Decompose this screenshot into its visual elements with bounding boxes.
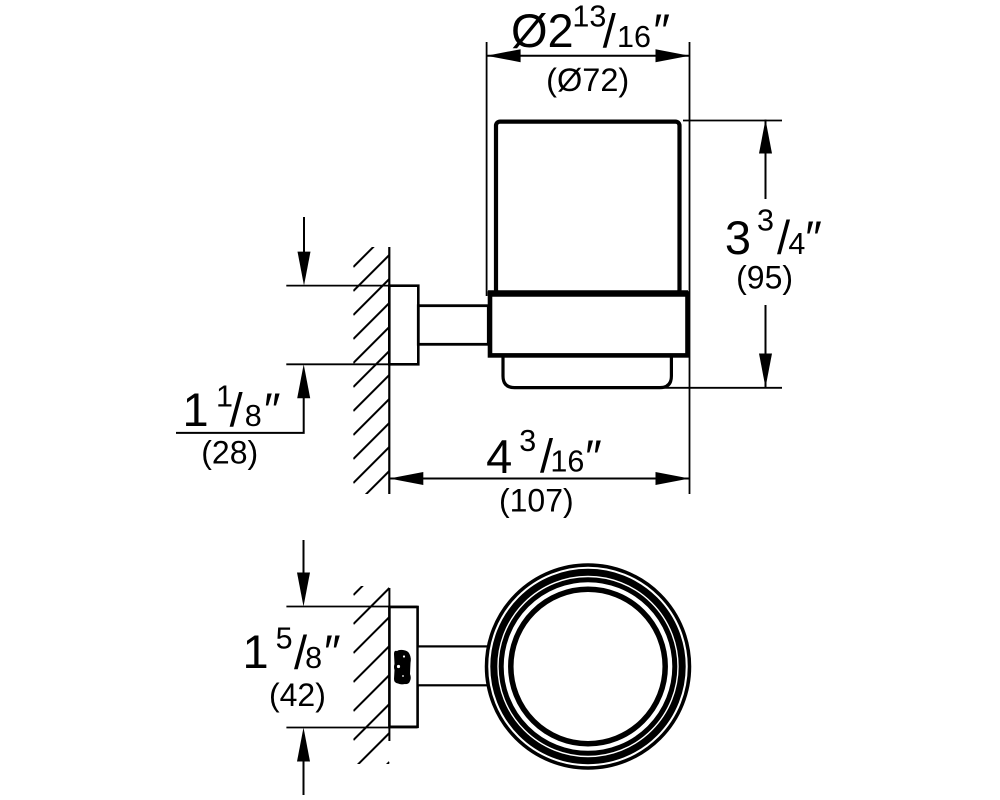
dim 95 arrow top (759, 120, 772, 154)
holder top edge thick (488, 290, 688, 297)
svg-text:4: 4 (486, 430, 512, 483)
dim label 3 3/4" (725, 204, 822, 265)
dim 28 leader and bottom arrow (176, 397, 304, 433)
svg-text:3: 3 (725, 211, 751, 264)
wall plate (side view) (389, 286, 418, 365)
dim label 1 5/8" (243, 622, 341, 680)
svg-text:(Ø72): (Ø72) (546, 62, 629, 98)
holder ring outer circle (bottom view) (487, 565, 690, 768)
dim 28 top arrow (303, 217, 305, 254)
dim 42 extension line top (286, 606, 417, 608)
dim 107 arrow right (656, 472, 690, 485)
glass bottom below holder (side view) (503, 354, 671, 388)
svg-text:1: 1 (243, 625, 269, 678)
dim 95 arrow bottom (759, 354, 772, 388)
dim label Ø2 13/16" (511, 0, 670, 57)
svg-text:Ø2: Ø2 (511, 4, 574, 57)
dim Ø72 extension line left (486, 42, 488, 296)
wall hatching (bottom view) (353, 559, 389, 798)
arm (bottom view) (418, 646, 490, 685)
dim Ø72 arrow left (487, 49, 521, 62)
dim 107 arrow left (389, 472, 423, 485)
dim 42 extension line bottom (286, 727, 417, 729)
svg-text:3: 3 (519, 424, 536, 458)
dim Ø72 extension line right (689, 42, 691, 494)
svg-text:″: ″ (585, 430, 602, 483)
svg-text:(95): (95) (736, 259, 793, 295)
wall line (bottom view) (388, 588, 390, 741)
dim 28 extension line bottom (286, 363, 389, 365)
dim 28 extension line top (286, 285, 389, 287)
svg-text:(28): (28) (201, 435, 258, 471)
dim Ø72 dimension line (487, 55, 690, 57)
svg-text:/: / (230, 384, 244, 437)
svg-text:(42): (42) (269, 677, 326, 713)
svg-text:8: 8 (245, 399, 262, 433)
dim 42 top arrow (303, 540, 305, 573)
svg-text:1: 1 (183, 383, 209, 436)
wall line (side view) (388, 247, 390, 494)
svg-text:″: ″ (264, 383, 281, 436)
holder ring middle circle (501, 580, 675, 754)
dim label 4 3/16" (486, 424, 602, 483)
svg-text:16: 16 (617, 20, 651, 54)
holder body (side view) (490, 294, 688, 356)
svg-text:4: 4 (788, 227, 805, 261)
dim 95 extension line bottom (660, 387, 782, 389)
svg-text:8: 8 (305, 641, 322, 675)
arm (side view) (418, 306, 488, 345)
svg-text:3: 3 (757, 204, 774, 238)
dim Ø72 arrow right (656, 49, 690, 62)
wall hatching (side view) (353, 231, 389, 507)
svg-text:13: 13 (572, 0, 606, 34)
screw (bottom view) (394, 650, 411, 685)
svg-text:16: 16 (550, 445, 584, 479)
dim label 1 1/8" (183, 380, 281, 437)
holder ring thick circle (494, 572, 682, 760)
glass body (side view) (496, 122, 680, 294)
dim 95 dimension line (765, 120, 767, 200)
svg-text:″: ″ (805, 211, 822, 264)
svg-text:″: ″ (653, 4, 670, 57)
svg-text:5: 5 (276, 622, 293, 656)
svg-text:(107): (107) (499, 482, 574, 518)
dim 42 bottom arrow (303, 761, 305, 795)
wall plate (bottom view) (389, 607, 417, 727)
holder ring inner circle (511, 589, 665, 743)
dim 95 extension line top (683, 120, 782, 122)
dim 107 dimension line (389, 478, 689, 480)
svg-text:/: / (603, 4, 617, 57)
svg-text:″: ″ (324, 625, 341, 678)
